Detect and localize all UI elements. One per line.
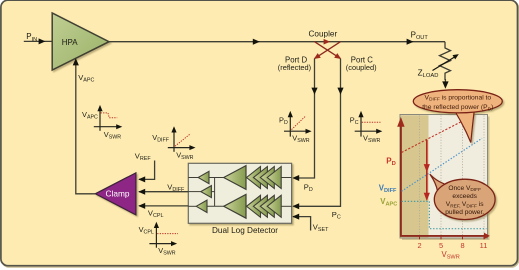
graph icon VCPL vs VSWR (139, 222, 178, 257)
input VSET (292, 214, 329, 234)
svg-text:(reflected): (reflected) (278, 63, 311, 72)
amplifier HPA (52, 13, 109, 70)
graph x axis (400, 233, 490, 261)
dual log detector box (188, 163, 291, 223)
svg-text:the reflected power (PD): the reflected power (PD) (422, 104, 493, 112)
svg-text:8: 8 (460, 241, 464, 250)
svg-text:11: 11 (480, 241, 488, 250)
log amp chain PD (top row) (188, 166, 291, 190)
svg-text:Coupler: Coupler (309, 29, 338, 38)
wire main output (109, 39, 445, 45)
input PIN (24, 32, 52, 44)
graph icon PC vs VSWR (350, 111, 383, 144)
svg-text:exceeds: exceeds (452, 193, 477, 200)
svg-text:pulled power.: pulled power. (445, 209, 484, 216)
difference amp VDIFF (188, 178, 214, 207)
svg-text:Clamp: Clamp (106, 189, 130, 199)
wire ZLOAD to callout (442, 79, 448, 89)
graph y axis (397, 117, 404, 237)
callout VDIFF proportional to reflected power (413, 90, 502, 143)
graph icon PD vs VSWR (279, 111, 312, 144)
curve VAPC on graph (402, 201, 487, 228)
wire PC from coupler to detector (292, 59, 343, 221)
node Port D (reflected) (278, 55, 311, 71)
graph icon VDIFF vs VSWR (152, 126, 195, 161)
wire VCPL detector to clamp (138, 203, 188, 219)
wire VAPC feedback from clamp to HPA (73, 58, 96, 194)
curve PD on graph (402, 115, 475, 153)
clamp (95, 173, 136, 215)
wire PD from coupler to detector (292, 59, 317, 193)
graph VSWR response plot (400, 115, 490, 241)
callout clamp action (430, 174, 495, 220)
svg-text:2: 2 (417, 241, 421, 250)
resistor ZLOAD (418, 42, 459, 80)
svg-text:5: 5 (439, 241, 443, 250)
coupler (309, 29, 342, 59)
graph icon VAPC vs VSWR (82, 105, 122, 140)
curve VDIFF on graph (402, 138, 483, 191)
delta arrows at clamp point (424, 140, 430, 201)
log amp chain PC (bottom row) (188, 194, 291, 218)
svg-text:HPA: HPA (62, 37, 78, 47)
node Port C (coupled) (346, 55, 377, 71)
input VREF (135, 151, 155, 182)
wire VDIFF detector to clamp (138, 183, 188, 195)
svg-text:Dual Log Detector: Dual Log Detector (212, 226, 278, 235)
svg-text:(coupled): (coupled) (346, 63, 377, 72)
node POUT (407, 30, 429, 44)
